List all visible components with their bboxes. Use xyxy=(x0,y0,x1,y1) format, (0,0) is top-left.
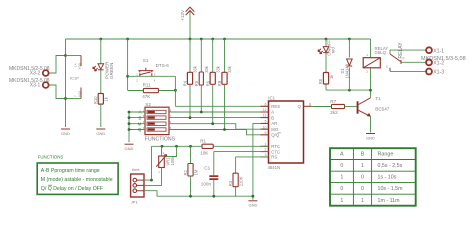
resistor R7 2k2 xyxy=(330,99,344,115)
svg-text:47K: 47K xyxy=(142,94,151,99)
wire left rail drop to GND xyxy=(65,39,67,127)
svg-text:B: B xyxy=(138,115,141,120)
svg-text:1: 1 xyxy=(361,163,364,169)
svg-text:FUNCTIONS: FUNCTIONS xyxy=(38,155,64,160)
svg-text:X3-1: X3-1 xyxy=(30,83,41,89)
svg-text:RES: RES xyxy=(271,104,280,109)
capacitor C1 100n xyxy=(201,152,219,197)
IC1 pin 2 CTC xyxy=(261,148,281,155)
svg-text:X3-2: X3-2 xyxy=(30,71,41,77)
svg-text:time: time xyxy=(132,167,140,172)
svg-text:X1-3: X1-3 xyxy=(433,70,444,76)
switch S2 row A xyxy=(129,108,177,114)
resistor R6 33k xyxy=(205,39,220,124)
wire X3-2 to VDD node xyxy=(49,56,65,74)
node VDD junction xyxy=(64,54,67,57)
wire net A row to IC1 pin 12 xyxy=(177,111,269,114)
svg-text:MO: MO xyxy=(271,127,279,132)
svg-text:Range: Range xyxy=(378,152,394,158)
svg-text:RS: RS xyxy=(271,155,277,160)
op power part IC1P pin VDD 14 xyxy=(66,56,82,70)
svg-text:3: 3 xyxy=(265,153,267,157)
IC1 pin 6 RES xyxy=(261,102,281,109)
svg-text:IC1: IC1 xyxy=(268,96,275,101)
svg-text:T1: T1 xyxy=(375,96,381,101)
svg-text:G5LQ: G5LQ xyxy=(375,50,387,55)
svg-text:Q/Q: Q/Q xyxy=(271,133,280,138)
ground symbol under T1 xyxy=(366,134,375,141)
svg-text:VSS: VSS xyxy=(77,91,81,97)
legend box xyxy=(37,163,118,194)
svg-text:DTS-6: DTS-6 xyxy=(156,63,170,68)
table A/B Range xyxy=(330,148,416,206)
IC1 pin 3 RS xyxy=(261,153,278,160)
wire T1 emitter to GND xyxy=(370,116,372,132)
svg-text:R11: R11 xyxy=(143,82,152,87)
op power part IC1P pin VSS 7 xyxy=(66,88,82,99)
svg-text:GND: GND xyxy=(366,135,375,140)
wire S2 common left rail to GND xyxy=(128,111,131,143)
svg-text:GND: GND xyxy=(125,146,134,151)
svg-text:1: 1 xyxy=(265,142,267,146)
svg-text:R10: R10 xyxy=(93,96,98,104)
svg-text:A: A xyxy=(271,110,274,115)
connector X1 label xyxy=(421,56,466,62)
wire collector node to relay coil xyxy=(370,68,372,98)
potentiometer VR1 100k xyxy=(156,146,176,174)
svg-text:GND: GND xyxy=(248,202,257,207)
svg-text:X1-2: X1-2 xyxy=(433,61,444,67)
svg-text:1N4148: 1N4148 xyxy=(344,63,349,78)
op-amp IC1 4541N box xyxy=(268,96,304,170)
wire net AR pin 5 to GND vertical xyxy=(253,123,269,199)
svg-text:CTC: CTC xyxy=(271,149,280,154)
svg-text:Q/ Q Delay on / Delay OFF: Q/ Q Delay on / Delay OFF xyxy=(41,186,103,192)
wire LED to R10 xyxy=(100,70,102,94)
svg-text:5: 5 xyxy=(265,120,267,124)
svg-text:1m - 11m: 1m - 11m xyxy=(378,198,401,204)
resistor R5 33k xyxy=(194,39,209,112)
svg-text:A: A xyxy=(340,152,344,158)
svg-text:+12V: +12V xyxy=(180,9,185,21)
svg-text:220K: 220K xyxy=(238,176,243,186)
svg-text:1: 1 xyxy=(361,198,364,204)
node VSS junction xyxy=(64,97,67,100)
+12V supply symbol xyxy=(180,7,194,39)
wire contact to X1-2 xyxy=(401,61,425,63)
svg-text:R1: R1 xyxy=(200,139,206,144)
svg-text:R9: R9 xyxy=(217,80,222,86)
wire JP1 pin bottom to ground bus xyxy=(144,191,157,197)
resistor R11 47K xyxy=(128,82,176,98)
transistor T1 BC547 xyxy=(357,96,390,117)
IC1 pin 8 Q output xyxy=(297,102,311,109)
ground symbol under R10 xyxy=(96,129,105,136)
svg-text:R4: R4 xyxy=(183,80,188,86)
svg-text:1M: 1M xyxy=(193,169,198,175)
switch S2 DIP FUNCTIONS xyxy=(145,102,176,143)
resistor R10 1k xyxy=(93,94,108,105)
svg-text:GND: GND xyxy=(61,131,70,136)
svg-text:B: B xyxy=(361,152,365,158)
svg-text:A: A xyxy=(138,110,141,115)
resistor R4 33k xyxy=(183,39,198,118)
relay K1 coil xyxy=(363,42,404,74)
wire JP1 pin top to RTC node xyxy=(144,146,153,181)
svg-text:6: 6 xyxy=(265,102,267,106)
svg-text:RTC: RTC xyxy=(271,144,280,149)
wire S1 horizontal xyxy=(128,75,176,77)
svg-text:M (mode) astable - monostable: M (mode) astable - monostable xyxy=(41,177,113,183)
svg-text:IC1P: IC1P xyxy=(70,76,79,81)
svg-text:X1-1: X1-1 xyxy=(433,48,444,54)
wire R8/D1 node horizontal xyxy=(326,89,372,92)
svg-text:AR: AR xyxy=(271,121,277,126)
svg-text:2k2: 2k2 xyxy=(330,110,338,115)
svg-text:P: P xyxy=(403,56,405,60)
svg-text:B: B xyxy=(271,115,274,120)
svg-text:FUNCTIONS: FUNCTIONS xyxy=(145,136,176,142)
svg-text:R7: R7 xyxy=(330,99,336,104)
legend FUNCTIONS heading xyxy=(38,155,64,160)
svg-text:red: red xyxy=(331,47,336,54)
svg-text:1s - 10s: 1s - 10s xyxy=(378,175,397,181)
svg-text:0: 0 xyxy=(340,163,343,169)
svg-text:R6: R6 xyxy=(205,80,210,86)
wire IC1 pin 8 to R7 xyxy=(312,106,332,108)
switch S2 row M xyxy=(129,120,177,126)
resistor R9 33k xyxy=(217,39,232,130)
connector X1-1 pad xyxy=(426,47,444,54)
svg-text:12: 12 xyxy=(263,108,267,112)
svg-text:VDD: VDD xyxy=(77,62,81,69)
wire contact to X1-3 xyxy=(390,70,425,72)
svg-text:1: 1 xyxy=(340,198,343,204)
svg-text:8: 8 xyxy=(309,102,311,106)
svg-text:R8: R8 xyxy=(318,78,323,84)
ground symbol AR net xyxy=(248,201,257,208)
relay contact xyxy=(386,50,405,71)
IC1 pin 13 B xyxy=(261,114,275,121)
svg-text:10K: 10K xyxy=(200,150,209,155)
wire R10 to GND xyxy=(100,104,102,127)
LED POWER GREEN xyxy=(93,39,114,79)
IC1P label xyxy=(70,76,79,81)
svg-text:0: 0 xyxy=(340,186,343,192)
ground symbol under S2 xyxy=(125,144,134,151)
IC1 pin 12 A xyxy=(261,108,275,115)
svg-text:4541N: 4541N xyxy=(268,165,281,170)
wire +12V top rail xyxy=(66,38,371,40)
svg-text:S1: S1 xyxy=(143,58,149,63)
svg-text:0: 0 xyxy=(361,175,364,181)
wire rail drop to relay coil xyxy=(370,39,372,58)
wire net Q row to IC1 pin 9 xyxy=(177,128,269,135)
wire ground bus xyxy=(157,195,254,198)
switch S2 row B xyxy=(129,114,177,120)
resistor R8 1k xyxy=(318,53,334,91)
IC1 pin 9 Q/Q xyxy=(261,131,281,138)
IC1 pin 5 AR xyxy=(261,120,278,127)
ground symbol left xyxy=(61,129,70,136)
svg-text:S: S xyxy=(386,64,388,68)
wire RS pin 3 to R3 xyxy=(236,156,269,158)
svg-text:10s - 1,5m: 10s - 1,5m xyxy=(378,186,404,192)
svg-text:S2: S2 xyxy=(145,102,151,107)
wire relay common to X1-1 xyxy=(390,49,425,51)
IC1 pin 1 RTC xyxy=(261,142,281,149)
wire JP1 pin middle to VR1 bottom xyxy=(144,168,162,186)
svg-text:C1: C1 xyxy=(204,165,210,170)
svg-text:13: 13 xyxy=(263,114,267,118)
connector X3-2 pad xyxy=(9,66,50,77)
node R11 right junction xyxy=(174,89,177,92)
switch S2 row Q xyxy=(129,126,177,132)
svg-text:R2: R2 xyxy=(183,170,188,176)
svg-text:0,5s - 2,5s: 0,5s - 2,5s xyxy=(378,163,403,169)
wire net M row to IC1 pin 10 xyxy=(177,122,269,129)
svg-text:GND: GND xyxy=(96,131,105,136)
svg-text:33k: 33k xyxy=(193,65,198,73)
resistor R2 1M xyxy=(183,146,198,196)
connector X1-2 pad xyxy=(426,60,444,67)
wire X3-1 to VSS node xyxy=(49,85,65,99)
svg-text:100k: 100k xyxy=(170,156,175,166)
svg-text:JP1: JP1 xyxy=(131,200,139,205)
connector X1-3 pad xyxy=(426,69,444,76)
IC1 pin 10 MO xyxy=(261,125,279,132)
diode D1 1N4148 xyxy=(340,39,352,90)
svg-text:33k: 33k xyxy=(215,65,220,73)
node S1 branch junction xyxy=(126,75,129,78)
svg-text:A-B Pprogram time range: A-B Pprogram time range xyxy=(41,168,100,174)
LED ON/OFF red xyxy=(318,39,336,56)
wire net B row to IC1 pin 13 xyxy=(177,116,269,119)
svg-text:10: 10 xyxy=(263,125,267,129)
resistor R3 220K xyxy=(228,157,243,196)
svg-text:BC547: BC547 xyxy=(375,107,389,112)
node rail junction dots xyxy=(99,38,350,41)
resistor R1 10K xyxy=(200,139,213,156)
wire S1/R11 down to RES row xyxy=(174,76,176,106)
svg-text:R3: R3 xyxy=(228,180,233,186)
switch S1 DTS-6 xyxy=(136,58,169,83)
svg-text:M: M xyxy=(138,121,142,126)
svg-text:2: 2 xyxy=(265,148,267,152)
svg-text:R5: R5 xyxy=(194,80,199,86)
svg-text:1: 1 xyxy=(340,175,343,181)
svg-text:33k: 33k xyxy=(227,65,232,73)
wire net RES row to IC1 pin 6 xyxy=(175,105,268,107)
svg-text:33k: 33k xyxy=(204,65,209,73)
connector X3-1 pad xyxy=(9,78,50,89)
svg-text:Q: Q xyxy=(138,127,142,132)
wire R7 to T1 base xyxy=(345,106,357,108)
svg-text:9: 9 xyxy=(265,131,267,135)
wire CTC pin 2 to C1 xyxy=(214,151,269,153)
wire rail drop to S1 branch xyxy=(127,39,129,90)
jumper JP1 time xyxy=(131,167,144,205)
svg-text:GREEN: GREEN xyxy=(109,63,114,79)
svg-text:100n: 100n xyxy=(201,181,212,186)
wire RTC node line xyxy=(152,145,269,148)
svg-text:0: 0 xyxy=(361,186,364,192)
